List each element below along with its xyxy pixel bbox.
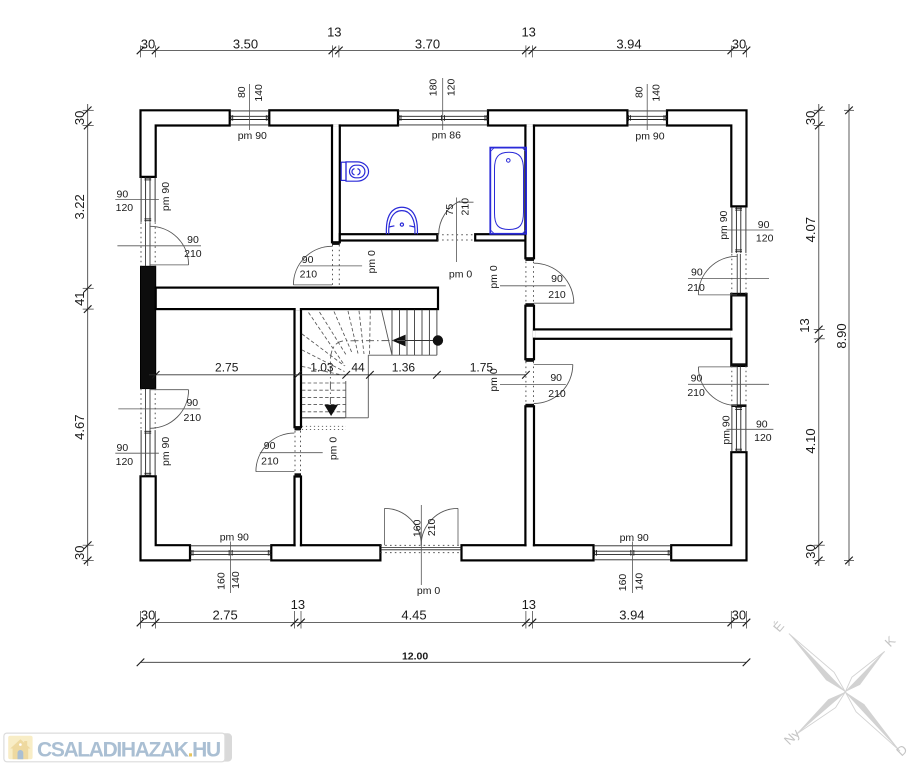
svg-text:30: 30: [803, 111, 818, 125]
svg-text:90: 90: [187, 234, 199, 246]
wall: bottom exterior segment left of french door: [271, 545, 380, 560]
svg-text:4.45: 4.45: [401, 608, 426, 623]
stairs winder treads: [382, 310, 393, 355]
svg-text:90: 90: [691, 267, 703, 279]
dimension line right outer 8.90: [848, 104, 850, 566]
svg-text:120: 120: [756, 233, 774, 245]
svg-text:210: 210: [687, 282, 705, 294]
door R1 90/210 right exterior wall upper: [731, 254, 733, 294]
svg-text:210: 210: [548, 289, 566, 301]
fixture: washbasin: [386, 207, 417, 234]
wall W3a: bathroom bottom wall left part: [340, 234, 438, 240]
svg-text:3.22: 3.22: [72, 194, 87, 219]
window B2 160/140 bottom wall right: [594, 545, 672, 547]
svg-text:90: 90: [691, 372, 703, 384]
svg-text:140: 140: [253, 84, 265, 102]
svg-text:210: 210: [184, 412, 202, 424]
window B1 160/140 bottom wall left: [190, 545, 271, 547]
wall: right exterior cap above lower window: [731, 404, 746, 407]
svg-text:30: 30: [72, 111, 87, 125]
svg-text:140: 140: [651, 84, 663, 102]
wall W2c top cap: [525, 404, 534, 407]
svg-text:pm 0: pm 0: [488, 265, 500, 289]
svg-text:210: 210: [687, 387, 705, 399]
window R1 90/120 right wall upper: [731, 207, 733, 253]
svg-text:8.90: 8.90: [834, 323, 849, 348]
door R2 90/210 right exterior wall lower: [731, 366, 733, 405]
stairs dimension line 2.75/1.03/44/1.36/1.75: [149, 374, 526, 376]
wall W1: room1/bathroom divider: [332, 126, 340, 243]
window T1 80/140 top wall: [230, 110, 270, 112]
svg-text:30: 30: [732, 36, 746, 51]
svg-text:1.03: 1.03: [310, 360, 334, 374]
svg-text:80: 80: [634, 86, 646, 98]
svg-text:210: 210: [300, 269, 318, 281]
svg-text:4.07: 4.07: [803, 217, 818, 242]
svg-text:90: 90: [758, 219, 770, 231]
svg-text:pm 86: pm 86: [432, 129, 461, 141]
svg-text:90: 90: [186, 397, 198, 409]
svg-text:pm 0: pm 0: [366, 250, 378, 274]
svg-text:90: 90: [551, 273, 563, 285]
wall: top exterior segment 3: [488, 110, 627, 125]
fixture: bathtub: [490, 148, 526, 234]
dimension line 12.00 overall: [141, 661, 747, 663]
svg-text:90: 90: [756, 418, 768, 430]
svg-text:4.67: 4.67: [72, 415, 87, 440]
door D3 90/210 room1 to corridor: [332, 245, 334, 287]
svg-text:90: 90: [117, 188, 129, 200]
svg-text:210: 210: [261, 456, 279, 468]
svg-text:90: 90: [117, 442, 129, 454]
wall W5b cap: [295, 473, 302, 476]
wall W2b caps: [525, 303, 534, 306]
door L2 90/210 left exterior wall lower: [140, 389, 142, 431]
svg-text:160: 160: [617, 574, 629, 592]
svg-text:1.36: 1.36: [392, 360, 416, 374]
window L1 90/120 left wall upper: [140, 177, 142, 222]
wall junction cleanups: [527, 124, 533, 127]
svg-text:140: 140: [634, 573, 646, 591]
wall W4: thick 41cm interior wall: [156, 288, 438, 310]
fixture: toilet: [341, 162, 368, 181]
wall W2c: lower piece to bottom wall: [525, 406, 534, 545]
logo csaladihazak.hu: [5, 733, 233, 761]
door D75 75/210 bathroom door: [437, 234, 475, 236]
wall: top-left exterior corner: [141, 110, 230, 177]
svg-text:210: 210: [548, 388, 566, 400]
dimension line top: [141, 49, 747, 51]
svg-text:41: 41: [72, 291, 87, 305]
svg-text:30: 30: [72, 546, 87, 560]
window T3 80/140 top wall right: [627, 110, 667, 112]
wall: top-right exterior corner: [667, 110, 747, 206]
svg-text:pm 90: pm 90: [238, 130, 267, 142]
svg-text:pm 0: pm 0: [417, 585, 441, 597]
svg-text:13: 13: [522, 597, 536, 612]
svg-text:44: 44: [351, 360, 365, 374]
wall W1 end cap: [332, 242, 340, 245]
svg-text:pm 0: pm 0: [449, 269, 473, 281]
svg-text:pm 90: pm 90: [718, 210, 730, 239]
stairs down arrow: [324, 405, 338, 416]
svg-text:75: 75: [444, 204, 456, 216]
svg-text:210: 210: [460, 198, 472, 216]
svg-text:3.94: 3.94: [616, 36, 641, 51]
wall W5a: stair wall upper: [295, 309, 302, 427]
svg-text:3.94: 3.94: [619, 608, 644, 623]
wall: bottom exterior segment right of french door: [462, 545, 594, 560]
svg-text:13: 13: [291, 597, 305, 612]
svg-text:30: 30: [732, 608, 746, 623]
wall: bottom-right exterior corner: [671, 452, 746, 560]
svg-text:160: 160: [411, 519, 423, 537]
svg-text:30: 30: [803, 544, 818, 558]
dimension line right inner: [818, 104, 820, 566]
svg-text:120: 120: [116, 202, 134, 214]
dimension line left: [87, 104, 89, 566]
wall W2a: bathroom right wall upper: [525, 126, 534, 259]
door DF french door 160/210 bottom wall: [380, 544, 461, 546]
svg-text:80: 80: [236, 86, 248, 98]
stairs lower flight treads: [302, 382, 346, 384]
svg-text:pm 90: pm 90: [160, 182, 172, 211]
svg-text:pm 90: pm 90: [635, 131, 664, 143]
svg-text:120: 120: [754, 432, 772, 444]
svg-text:13: 13: [327, 25, 341, 40]
svg-text:3.70: 3.70: [415, 36, 440, 51]
svg-text:90: 90: [264, 440, 276, 452]
window R2 90/120 right wall lower: [731, 407, 733, 453]
svg-text:2.75: 2.75: [215, 360, 239, 374]
wall W5a cap: [295, 427, 302, 430]
stairs boundary lines: [368, 354, 437, 356]
wall W2b: middle piece between doors: [525, 306, 534, 360]
compass rose: [789, 634, 845, 692]
svg-text:30: 30: [141, 608, 155, 623]
svg-text:pm 90: pm 90: [721, 415, 733, 444]
svg-text:160: 160: [215, 572, 227, 590]
svg-text:90: 90: [302, 254, 314, 266]
svg-text:4.10: 4.10: [803, 428, 818, 453]
window L2 90/120 left wall lower: [140, 430, 142, 476]
dimension line bottom: [141, 622, 747, 624]
svg-text:30: 30: [141, 36, 155, 51]
svg-text:90: 90: [550, 372, 562, 384]
wall: top exterior segment 2: [269, 110, 398, 125]
svg-text:1.75: 1.75: [470, 360, 494, 374]
door L1 90/210 left exterior wall upper: [140, 222, 142, 266]
svg-text:210: 210: [184, 248, 202, 260]
door D4 90/210 corridor to top-right room: [525, 262, 527, 304]
svg-text:3.50: 3.50: [233, 36, 258, 51]
window T2 180/120 bathroom top wall: [398, 110, 488, 112]
svg-text:120: 120: [445, 78, 457, 96]
svg-text:pm 0: pm 0: [327, 437, 339, 461]
svg-text:pm 90: pm 90: [220, 531, 249, 543]
svg-text:12.00: 12.00: [402, 651, 428, 663]
svg-text:CSALADIHAZAK.HU: CSALADIHAZAK.HU: [37, 738, 220, 761]
svg-text:13: 13: [797, 318, 812, 332]
logo house icon: [8, 736, 32, 760]
stairs upper flight treads: [391, 310, 393, 355]
svg-text:180: 180: [428, 79, 440, 97]
wall: right exterior pier between doors: [731, 294, 746, 366]
door D5 90/210 hall to bottom-right room: [525, 362, 527, 404]
wall W5b: stair wall lower: [295, 477, 302, 546]
stairs walking line with start circle: [405, 340, 438, 342]
wall: left exterior black pier: [141, 266, 156, 388]
svg-text:120: 120: [116, 456, 134, 468]
wall W6: right rooms divider: [534, 329, 731, 338]
svg-text:pm 90: pm 90: [160, 437, 172, 466]
svg-text:2.75: 2.75: [212, 608, 237, 623]
svg-text:140: 140: [230, 571, 242, 589]
svg-text:pm 90: pm 90: [620, 532, 649, 544]
wall: bottom-left exterior corner: [141, 476, 191, 560]
door D6 90/210 hall to bottom-left room: [294, 431, 296, 473]
svg-text:13: 13: [521, 25, 535, 40]
wall W2a end cap: [525, 258, 534, 261]
stairs walking line curve down: [330, 341, 405, 405]
wall W3b: bathroom bottom wall right part: [475, 234, 525, 240]
svg-text:210: 210: [426, 518, 438, 536]
